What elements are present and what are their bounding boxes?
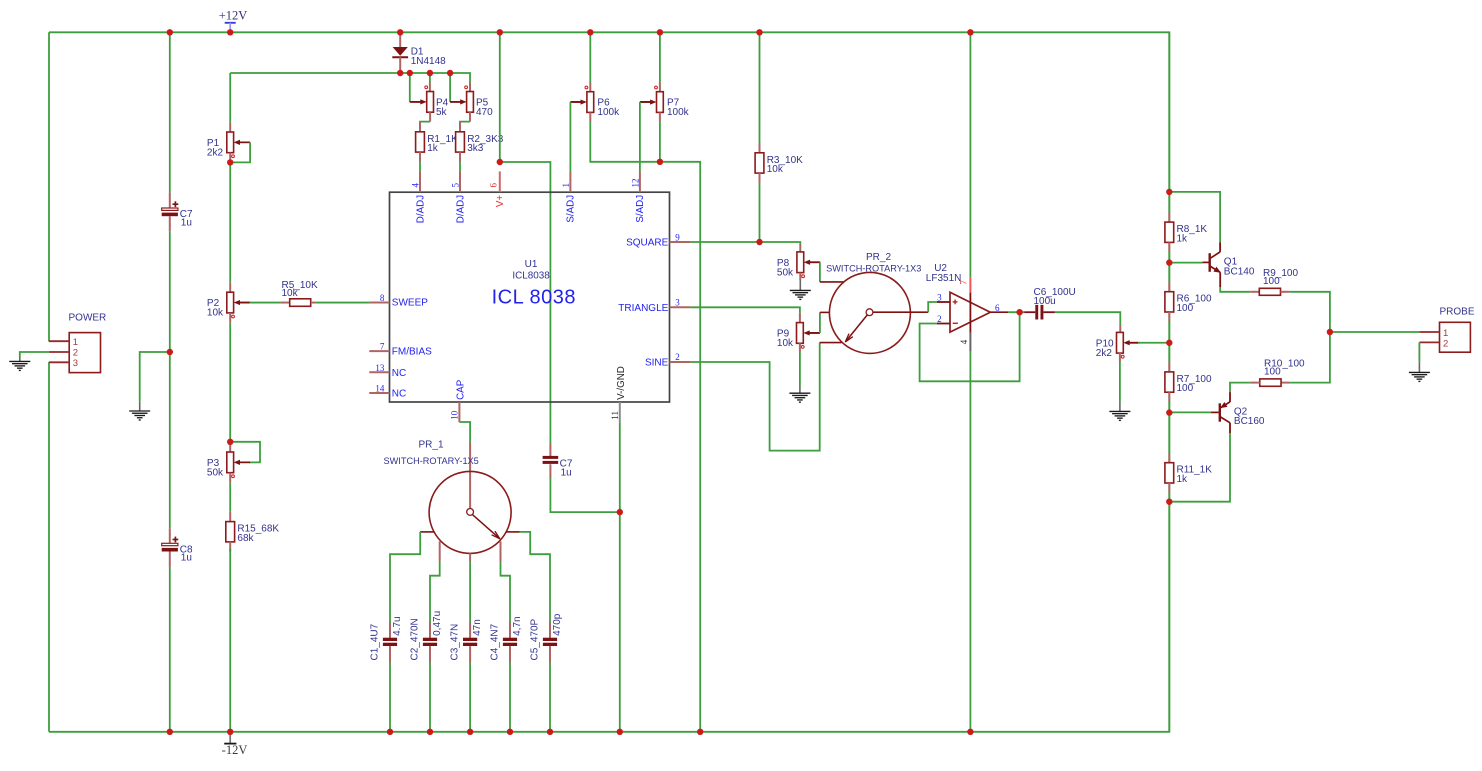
junction V+ node: [497, 159, 503, 165]
wire wire C3 to bus: [469, 663, 471, 732]
junction V+ column: [497, 29, 503, 35]
svg-text:68k: 68k: [237, 533, 254, 544]
junction C7 top: [167, 29, 173, 35]
svg-text:S/ADJ: S/ADJ: [566, 195, 577, 223]
rotary switch PR_1: [384, 439, 512, 553]
wire C7 bottom to gnd node: [169, 232, 171, 352]
potentiometer P2: [207, 292, 250, 318]
svg-text:100k: 100k: [597, 107, 620, 118]
wire wire pin10 jog: [459, 422, 470, 443]
svg-text:SINE: SINE: [645, 358, 669, 369]
svg-text:12: 12: [631, 179, 641, 188]
wire C8 bottom wire: [169, 567, 171, 732]
svg-text:50k: 50k: [207, 467, 224, 478]
POWER pin 1 stub: [49, 340, 69, 342]
wire P3 wiper loop: [230, 442, 260, 463]
U1 pin 7 (FM/BIAS): [369, 342, 432, 358]
junction U2 output: [1016, 309, 1022, 315]
svg-text:470: 470: [476, 107, 493, 118]
PR_1 selector arrow: [472, 515, 500, 539]
PR_2 throw 2 stub: [820, 311, 830, 313]
wire wire probe pin2 to gnd: [1418, 342, 1420, 361]
svg-text:10k: 10k: [282, 288, 299, 299]
capacitor C7 (polarized): [162, 201, 193, 228]
capacitor C2: [409, 611, 443, 661]
junction bus C1: [387, 729, 393, 735]
U1 pin 4 (D/ADJ): [411, 171, 427, 223]
junction: [447, 70, 453, 76]
svg-text:2: 2: [1443, 339, 1448, 350]
svg-text:SWITCH-ROTARY-1X3: SWITCH-ROTARY-1X3: [826, 264, 921, 274]
svg-text:470p: 470p: [552, 613, 563, 636]
+12V supply symbol: [219, 9, 248, 33]
wire wire R10 to Q2 emitter: [1230, 383, 1250, 393]
junction P7 top: [657, 29, 663, 35]
potentiometer P6: [570, 86, 620, 118]
resistor R1: [416, 132, 459, 154]
U1 pin 13 (NC): [369, 363, 406, 379]
junction bus C4: [507, 729, 513, 735]
svg-text:BC160: BC160: [1234, 416, 1265, 427]
junction: [407, 70, 413, 76]
wire wire chain R8 top: [1168, 32, 1170, 212]
svg-text:50k: 50k: [777, 267, 794, 278]
wire wire P9 wiper elbow: [819, 312, 821, 333]
wire wire Q1 emitter to R9: [1220, 287, 1250, 292]
wire wire D1 output row: [230, 73, 470, 83]
svg-text:1u: 1u: [181, 553, 192, 564]
wire wire C6 to P10: [1055, 312, 1120, 325]
wire wire R5 to pin8: [315, 302, 369, 304]
wire wire U2 feedback: [920, 312, 1020, 381]
wire C8 top wire: [169, 352, 171, 528]
svg-text:7: 7: [959, 280, 969, 285]
wire wire P7 bottom: [659, 122, 661, 162]
wire wire P5 to R2: [460, 122, 470, 124]
svg-text:PR_1: PR_1: [419, 439, 444, 450]
junction Q2 collector: [1166, 499, 1172, 505]
svg-text:C5_470P: C5_470P: [529, 618, 540, 660]
junction bus C8: [167, 729, 173, 735]
Q1 base stub: [1203, 261, 1209, 263]
PR_1 common pin: [469, 443, 471, 510]
diode D1 1N4148: [392, 32, 446, 73]
wire wire P4 top: [429, 73, 431, 83]
wire left +12V rail: [48, 32, 50, 341]
svg-text:10k: 10k: [207, 308, 224, 319]
capacitor C4: [489, 616, 523, 660]
wire wire Q1 collector: [1169, 192, 1220, 243]
svg-text:SWITCH-ROTARY-1X5: SWITCH-ROTARY-1X5: [384, 456, 479, 466]
junction P6 top: [587, 29, 593, 35]
P6 wiper wire: [570, 101, 583, 103]
svg-text:100k: 100k: [667, 107, 690, 118]
svg-text:1k: 1k: [1177, 474, 1189, 485]
svg-text:4.7u: 4.7u: [392, 616, 403, 635]
P10 wiper wire: [1127, 342, 1138, 344]
junction bus pin11: [617, 729, 623, 735]
wire wire C7b bottom: [550, 478, 619, 512]
svg-text:PROBE: PROBE: [1440, 307, 1475, 318]
svg-text:V+: V+: [495, 195, 506, 208]
svg-text:1k: 1k: [1177, 233, 1189, 244]
wire wire throw3 to C3: [469, 561, 471, 623]
potentiometer P5: [450, 86, 493, 118]
svg-text:3k3: 3k3: [467, 143, 484, 154]
svg-text:NC: NC: [392, 389, 406, 400]
svg-text:100: 100: [1177, 383, 1194, 394]
svg-text:9: 9: [675, 232, 680, 242]
U2 output stub: [990, 311, 1008, 313]
wire wire throw2 to C2: [430, 561, 440, 623]
svg-text:PR_2: PR_2: [866, 252, 891, 263]
wire POWER pin2 to gnd: [20, 352, 49, 358]
wire wire U2 out: [1008, 311, 1024, 313]
U1 pin 11 (V-/GND): [610, 366, 627, 422]
junction +12V tap: [227, 29, 233, 35]
resistor R5: [282, 280, 318, 306]
junction P3 top: [227, 439, 233, 445]
junction pin11 line: [617, 509, 623, 515]
svg-text:-12V: -12V: [222, 743, 248, 757]
svg-text:0,47u: 0,47u: [432, 611, 443, 636]
ground GND P8: [790, 280, 811, 299]
U1 pin 9 (SQUARE): [626, 232, 691, 248]
junction Q1 collector: [1166, 189, 1172, 195]
wire P2 wiper to R5: [237, 302, 250, 304]
U1 pin 14 (NC): [369, 384, 406, 400]
op-amp U2 LF351N: [926, 263, 991, 333]
wire wire PR_2 common to U2+: [928, 302, 937, 312]
transistor Q2 BC160: [1220, 392, 1265, 433]
capacitor C1: [369, 616, 403, 660]
U1 pin 12 (S/ADJ): [631, 171, 647, 222]
wire wire P7 wiper to pin12: [639, 102, 641, 171]
wire gnd branch: [140, 352, 170, 401]
P4 wiper wire: [410, 101, 423, 103]
svg-text:3: 3: [73, 358, 78, 369]
svg-text:2: 2: [675, 352, 680, 362]
PR_1 throw 2 stub: [439, 541, 441, 561]
junction R3/SQUARE: [756, 239, 762, 245]
transistor Q1 BC140: [1210, 243, 1255, 288]
PR_1 throw 5 stub: [506, 531, 520, 533]
svg-text:S/ADJ: S/ADJ: [635, 195, 646, 223]
P7 wiper wire: [640, 101, 653, 103]
svg-text:NC: NC: [392, 368, 406, 379]
wire wire R2 to pin5: [459, 162, 461, 172]
P8 wiper wire: [808, 261, 820, 263]
PROBE pin 2 stub: [1419, 341, 1439, 343]
svg-text:100: 100: [1263, 276, 1280, 287]
junction bus U2 V-: [967, 729, 973, 735]
svg-text:100: 100: [1177, 303, 1194, 314]
svg-text:4: 4: [959, 339, 969, 344]
potentiometer P8: [777, 252, 820, 278]
PR_1 throw 1 stub: [420, 531, 434, 533]
potentiometer P3: [207, 452, 250, 478]
svg-text:TRIANGLE: TRIANGLE: [618, 303, 668, 314]
U1 pin 3 (TRIANGLE): [618, 297, 690, 314]
svg-text:3: 3: [675, 297, 680, 307]
svg-text:2k2: 2k2: [207, 147, 224, 158]
wire wire throw5 to C5: [520, 532, 551, 623]
svg-text:CAP: CAP: [456, 379, 467, 400]
wire wire P10 wiper: [1138, 342, 1169, 344]
svg-text:C3_47N: C3_47N: [450, 624, 461, 661]
wire wire P10 to gnd: [1119, 362, 1121, 402]
junction D1 top: [397, 29, 403, 35]
resistor R6: [1165, 292, 1212, 314]
capacitor C5: [529, 613, 563, 660]
wire wire R7 to Q2 base: [1168, 402, 1170, 453]
svg-text:ICL8038: ICL8038: [512, 271, 550, 282]
svg-text:FM/BIAS: FM/BIAS: [392, 347, 432, 358]
svg-text:1k: 1k: [427, 143, 439, 154]
wire wire U2 V+ column: [969, 32, 971, 277]
capacitor C6: [1034, 287, 1076, 319]
resistor R11: [1165, 463, 1212, 485]
POWER pin 3 stub: [49, 361, 69, 363]
PR_2 common stub: [873, 311, 928, 313]
U2 pin 3 stub: [937, 301, 950, 303]
resistor R3: [755, 153, 803, 175]
ground GND power: [9, 358, 30, 371]
U1 pin 10 (CAP): [450, 379, 467, 422]
PR_2 throw 3 stub: [820, 342, 842, 344]
svg-text:13: 13: [375, 363, 385, 373]
wire wire R8 to base node: [1168, 252, 1170, 282]
svg-text:5: 5: [451, 183, 461, 188]
wire wire probe node down: [1290, 332, 1330, 383]
svg-text:D/ADJ: D/ADJ: [415, 195, 426, 223]
svg-text:1: 1: [73, 337, 78, 348]
wire wire probe pin1: [1330, 331, 1420, 333]
svg-text:1: 1: [561, 183, 571, 188]
IC U1 ICL8038 body: [390, 192, 670, 402]
wire wire pin11 column: [619, 422, 621, 732]
wire wire U2 V- column: [969, 352, 971, 732]
wire wire P6 wiper to pin1: [569, 102, 571, 171]
connector PROBE: [1440, 307, 1475, 353]
junction Q1 base: [1166, 259, 1172, 265]
svg-text:3: 3: [937, 293, 942, 303]
rotary switch PR_2: [826, 252, 928, 353]
svg-text:8: 8: [380, 293, 385, 303]
svg-text:ICL 8038: ICL 8038: [492, 286, 576, 308]
potentiometer P9: [777, 323, 820, 349]
svg-text:+12V: +12V: [219, 9, 248, 23]
wire left -12V rail: [48, 362, 50, 732]
wire wire P9 to gnd: [799, 352, 801, 387]
resistor R9: [1259, 268, 1298, 295]
wire wire C2 to bus: [429, 663, 431, 732]
op-amp U2 pin 7 stub: [969, 278, 971, 293]
potentiometer P10: [1096, 332, 1140, 358]
capacitor C8 (polarized): [162, 537, 193, 564]
capacitor C7b: [543, 456, 559, 464]
svg-text:1N4148: 1N4148: [411, 56, 446, 67]
junction P7 bottom: [657, 159, 663, 165]
potentiometer P7: [640, 86, 690, 118]
PR_1 throw 3 stub: [469, 553, 471, 561]
POWER pin 2 stub: [49, 351, 69, 353]
resistor R15: [226, 522, 280, 544]
wire wire V+ column: [499, 32, 501, 162]
wire wire Q1 base: [1169, 262, 1202, 264]
potentiometer P1: [207, 132, 250, 158]
wire wire P4 wiper drop: [409, 73, 411, 102]
wire wire R11 to bus: [1168, 493, 1170, 502]
resistor R8: [1165, 222, 1208, 244]
svg-text:2: 2: [937, 314, 942, 324]
junction bus S/ADJ bias: [697, 729, 703, 735]
svg-text:D/ADJ: D/ADJ: [455, 195, 466, 223]
potentiometer P4: [410, 86, 448, 118]
svg-text:POWER: POWER: [69, 313, 107, 324]
wire wire R5 left: [250, 302, 281, 304]
wire wire V+ to C7b column: [500, 162, 551, 444]
svg-text:14: 14: [375, 384, 385, 394]
wire wire P3 to R15: [229, 483, 231, 512]
wire wire R15 to -12V bus: [229, 549, 231, 732]
resistor R2: [456, 132, 504, 154]
svg-text:V-/GND: V-/GND: [616, 366, 627, 400]
svg-text:2: 2: [73, 348, 78, 359]
ground GND probe: [1409, 362, 1430, 382]
wire wire R9 to probe node: [1290, 292, 1330, 332]
svg-text:4: 4: [411, 183, 421, 188]
junction bus C2: [427, 729, 433, 735]
svg-text:BC140: BC140: [1224, 266, 1255, 277]
ground GND P10: [1109, 402, 1130, 421]
P9 wiper wire: [807, 332, 820, 334]
wire wire P7 top: [659, 32, 661, 82]
svg-text:10k: 10k: [767, 164, 784, 175]
wire wire R3 top: [759, 32, 761, 143]
svg-text:11: 11: [610, 411, 620, 420]
junction bus C5: [547, 729, 553, 735]
junction bus C3: [467, 729, 473, 735]
wire wire throw4 to C4: [501, 561, 511, 623]
wire wire TRIANGLE: [691, 307, 800, 312]
junction U2 V+ column: [967, 29, 973, 35]
wire wire R3 bottom: [759, 183, 761, 242]
-12V supply symbol: [222, 732, 248, 757]
wire wire P6 top: [589, 32, 591, 82]
svg-text:2k2: 2k2: [1096, 348, 1113, 359]
junction: [397, 70, 403, 76]
svg-text:10: 10: [450, 410, 460, 420]
U1 pin 1 (S/ADJ): [561, 171, 577, 222]
svg-text:5k: 5k: [436, 107, 448, 118]
wire wire C1 to bus: [389, 663, 391, 732]
svg-text:C2_470N: C2_470N: [409, 618, 420, 660]
op-amp U2 pin 4 stub: [969, 333, 971, 352]
svg-text:100u: 100u: [1034, 296, 1056, 307]
PR_2 selector arrow: [845, 315, 867, 342]
capacitor C7b labels: [560, 458, 573, 478]
junction gnd node: [167, 349, 173, 355]
U1 pin 8 (SWEEP): [369, 293, 428, 309]
svg-text:10k: 10k: [777, 338, 794, 349]
junction Q2 base: [1166, 409, 1172, 415]
svg-text:1u: 1u: [561, 468, 572, 479]
svg-text:SQUARE: SQUARE: [626, 238, 669, 249]
P5 wiper wire: [450, 101, 463, 103]
wire wire R6 to P10 node: [1168, 322, 1170, 362]
svg-text:LF351N: LF351N: [926, 273, 962, 284]
junction probe node: [1327, 329, 1333, 335]
wire wire R1 to pin4: [419, 162, 421, 172]
capacitor C3: [450, 619, 484, 660]
connector POWER: [69, 313, 107, 373]
Q2 base stub: [1211, 411, 1219, 413]
wire wire P6 bottom row: [590, 122, 700, 732]
wire wire D1 row to P1: [229, 73, 231, 123]
wire wire P8 wiper elbow: [819, 262, 821, 282]
junction: [427, 70, 433, 76]
U1 pin 2 (SINE): [645, 352, 691, 369]
U2 pin 2 stub: [937, 323, 950, 325]
wire wire SINE: [691, 343, 820, 451]
svg-text:47n: 47n: [472, 619, 483, 636]
svg-text:C4_4N7: C4_4N7: [489, 623, 500, 660]
svg-text:C1_4U7: C1_4U7: [369, 623, 380, 660]
PR_1 throw 4 stub: [500, 541, 502, 561]
PR_2 throw 1 stub: [820, 281, 844, 283]
wire C7 top wire: [169, 32, 171, 192]
svg-text:1: 1: [1443, 328, 1448, 339]
wire wire Q2 collector: [1169, 433, 1230, 502]
svg-text:SWEEP: SWEEP: [392, 298, 428, 309]
junction P10 wiper: [1166, 340, 1172, 346]
junction P1 bottom: [227, 159, 233, 165]
junction R3 top: [756, 29, 762, 35]
resistor R10: [1260, 359, 1305, 387]
wire wire SQUARE: [691, 242, 801, 245]
wire wire throw1 to C1: [390, 532, 420, 623]
wire wire P4 to R1: [420, 122, 430, 124]
svg-text:7: 7: [380, 342, 385, 352]
svg-text:6: 6: [995, 303, 1000, 313]
wire +12V top bus: [49, 32, 1169, 732]
svg-text:U1: U1: [525, 259, 538, 270]
svg-text:4,7n: 4,7n: [512, 616, 523, 635]
resistor R7: [1165, 372, 1212, 394]
U1 pin 5 (D/ADJ): [451, 171, 467, 223]
svg-text:1u: 1u: [181, 217, 192, 228]
wire wire P1 to P2: [229, 162, 231, 282]
U1 pin 6 (V+): [489, 171, 507, 207]
wire P1 wiper loop: [230, 142, 250, 162]
ground GND mid: [129, 401, 150, 420]
svg-text:6: 6: [489, 183, 499, 188]
svg-text:100: 100: [1264, 367, 1281, 378]
wire wire chain bottom: [1168, 502, 1170, 732]
wire wire C5 to bus: [549, 663, 551, 732]
wire wire P2 to P3: [229, 323, 231, 442]
wire wire C4 to bus: [509, 663, 511, 732]
ground GND P9: [789, 387, 810, 403]
PROBE pin 1 stub: [1419, 331, 1439, 333]
junction bus -12V: [227, 729, 233, 735]
wire wire P5 wiper drop: [449, 73, 451, 102]
wire wire Q2 base: [1169, 411, 1211, 413]
